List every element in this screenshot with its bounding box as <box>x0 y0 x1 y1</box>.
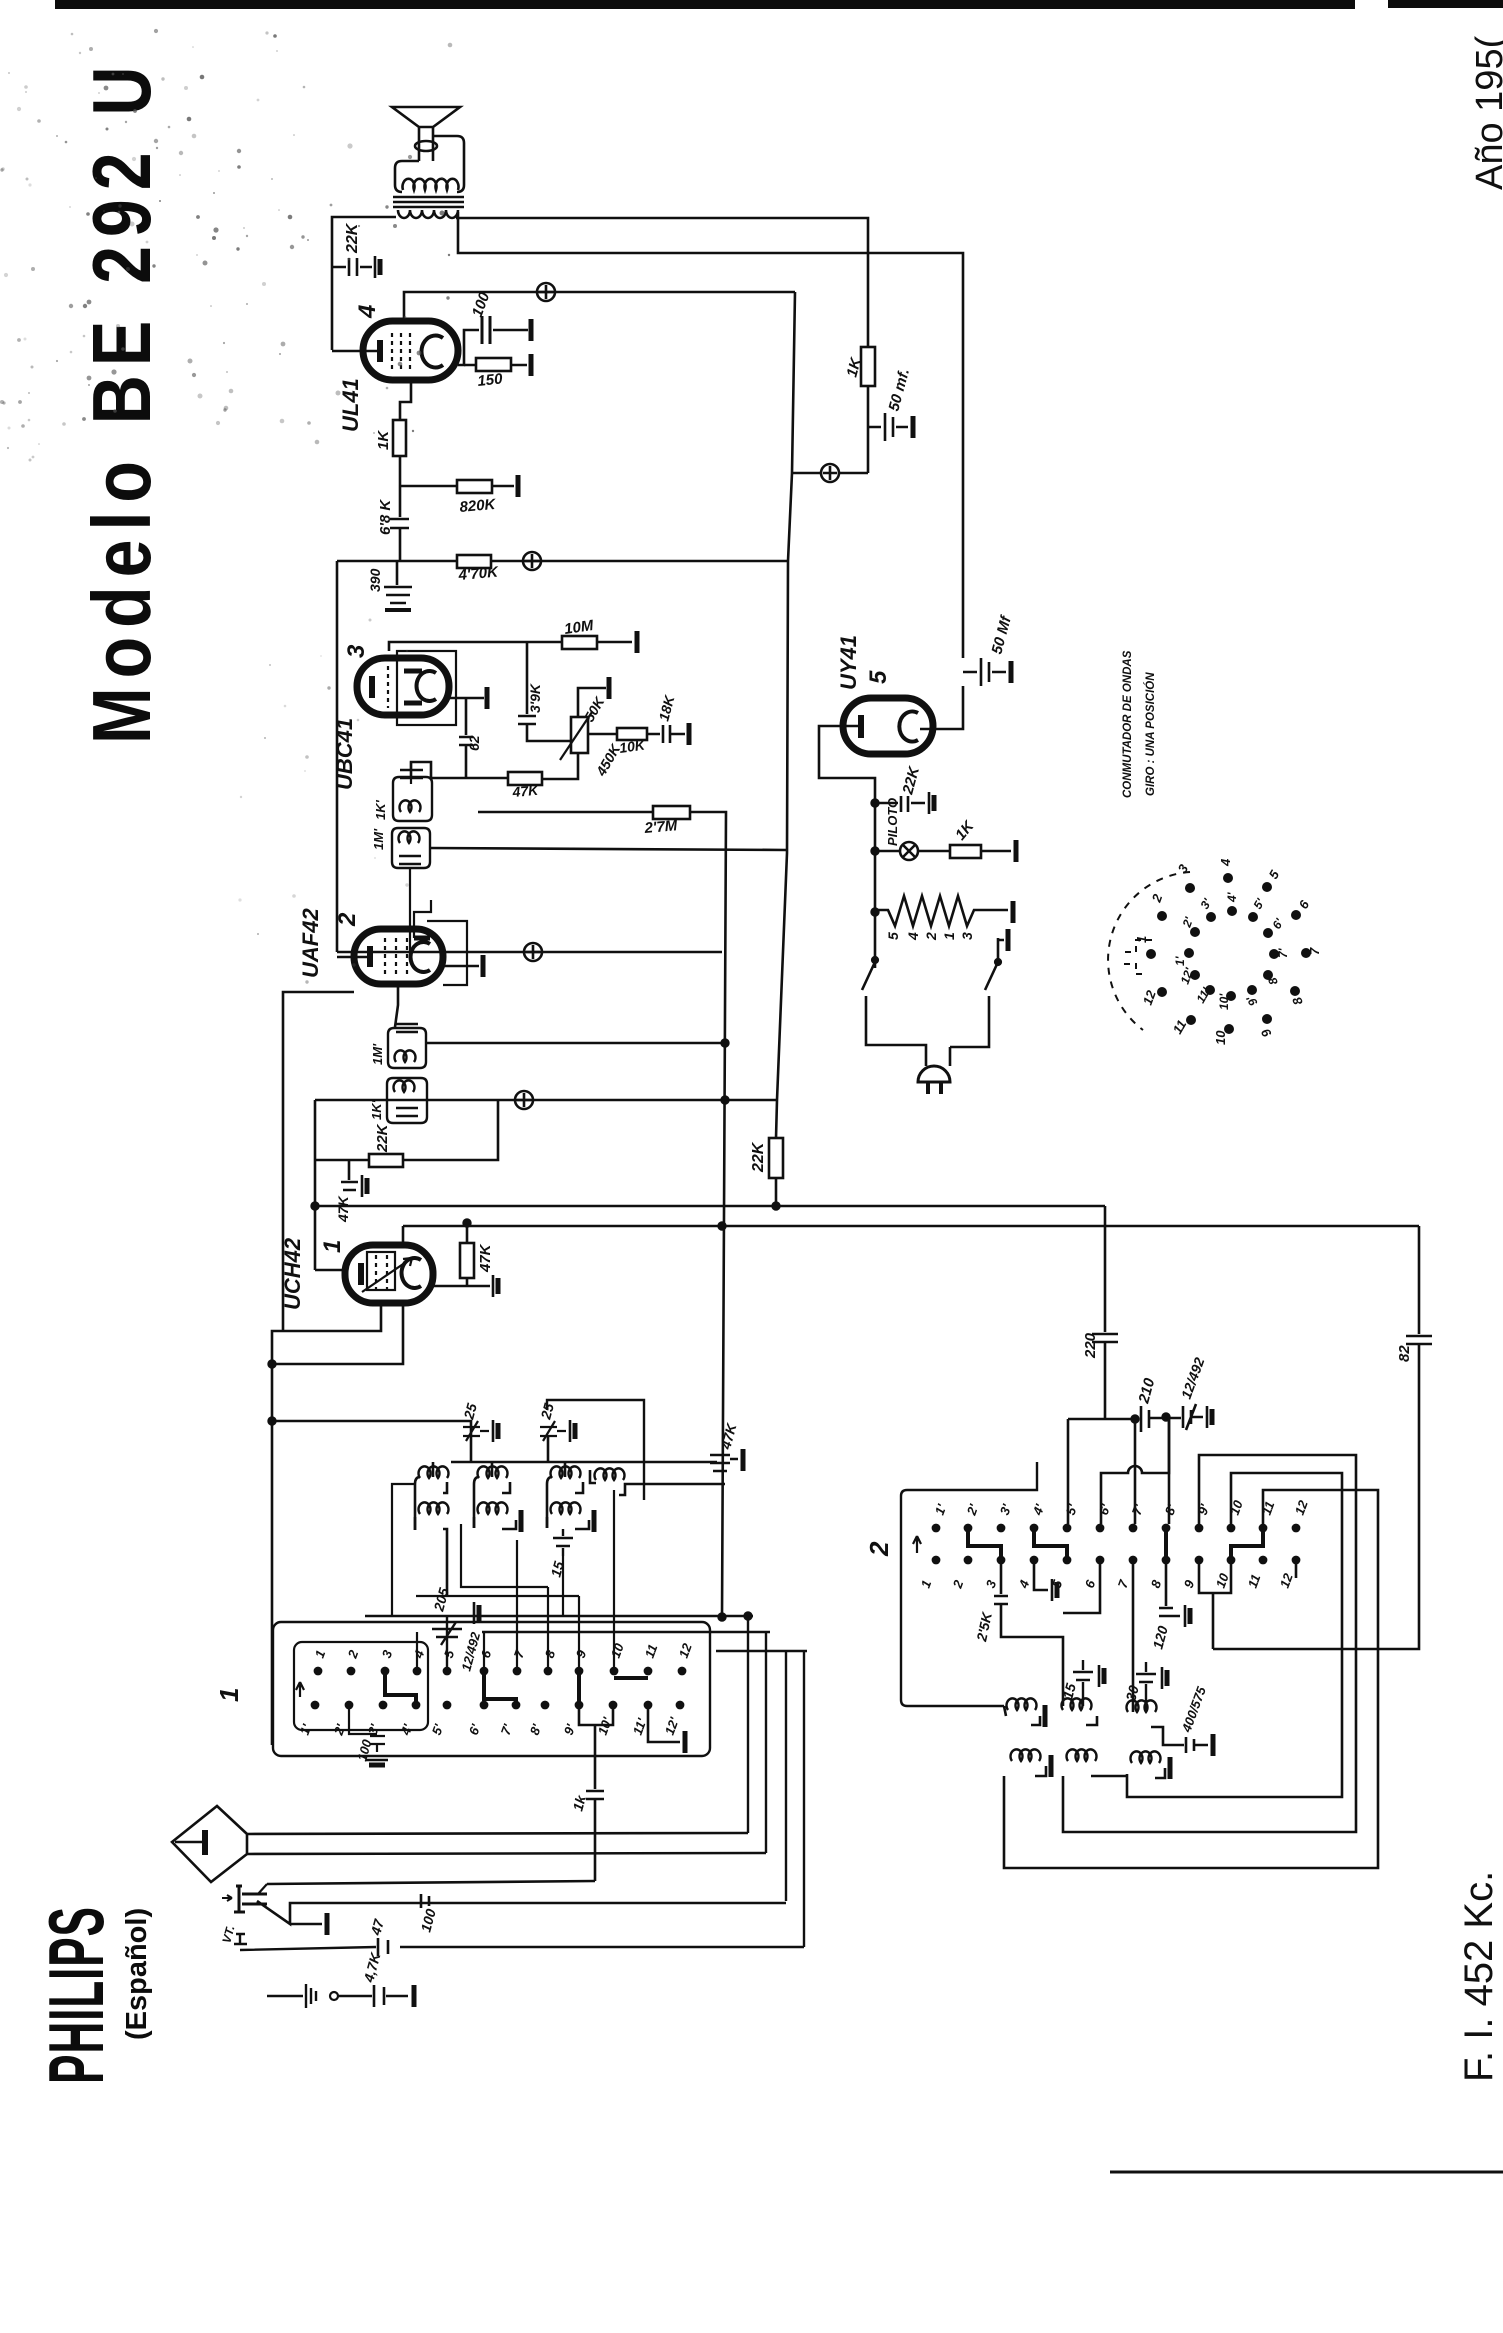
svg-text:UBC41: UBC41 <box>332 718 357 790</box>
capacitor 15 (osc) <box>1073 1660 1093 1706</box>
UCH42 cathode bar <box>358 1263 364 1285</box>
ground <box>530 354 533 376</box>
svg-text:8: 8 <box>1148 1577 1165 1590</box>
scan noise top bar <box>55 0 1355 9</box>
svg-text:Modelo BE 292 U: Modelo BE 292 U <box>76 57 169 744</box>
svg-text:8': 8' <box>527 1721 545 1737</box>
contact 8 to capacitor 120 <box>1159 1560 1180 1616</box>
svg-text:390: 390 <box>367 568 383 592</box>
capacitor 30 (osc) <box>1136 1662 1156 1710</box>
svg-text:UAF42: UAF42 <box>298 908 323 978</box>
svg-text:11: 11 <box>1245 1572 1264 1590</box>
link 6-7' <box>484 1673 516 1703</box>
IFT2 coupling top box <box>393 777 432 821</box>
switch bank 1 box <box>273 1622 710 1756</box>
svg-text:8: 8 <box>1289 994 1306 1007</box>
nested loop 11 <box>1004 1490 1378 1868</box>
switch 2 contact labels primed <box>932 1498 1311 1518</box>
UAF42 grid bus <box>337 951 722 954</box>
ground <box>375 256 380 278</box>
switch 1 contact labels top <box>312 1641 695 1661</box>
mains aerial ground chain <box>267 1995 303 1998</box>
UAF42 anode to IFT3 <box>395 984 398 1027</box>
svg-text:10: 10 <box>1213 1571 1232 1590</box>
IFT3 wire right to B rail <box>426 1042 725 1045</box>
UL41 grid wire left <box>332 350 377 353</box>
svg-text:9': 9' <box>1195 1501 1213 1517</box>
voice coil winding <box>403 179 459 190</box>
resistor 47K (AF) <box>508 772 542 785</box>
capacitor 82 (right edge) <box>1213 1226 1432 1649</box>
tube UBC41 <box>357 658 449 715</box>
svg-text:47K: 47K <box>335 1195 351 1223</box>
svg-text:6: 6 <box>1296 897 1313 911</box>
UBC41 cathode bar <box>369 676 375 698</box>
switch1 bus b <box>482 1631 770 1634</box>
UCH42 grid dashes <box>376 1255 387 1293</box>
svg-text:5: 5 <box>1266 867 1283 881</box>
svg-text:6': 6' <box>1269 915 1286 931</box>
UBC41 grid dash <box>387 666 389 708</box>
osc coil row 1 <box>1004 1706 1006 1716</box>
svg-text:22K: 22K <box>344 222 361 254</box>
bottom right rule line <box>1110 2171 1503 2174</box>
svg-text:4: 4 <box>1218 858 1233 867</box>
svg-text:22K: 22K <box>899 764 923 797</box>
resistor 1K (pilot shunt) <box>950 845 981 858</box>
heater dropper zigzag <box>875 896 1008 926</box>
svg-text:4: 4 <box>410 1647 427 1661</box>
wafer outer contacts <box>1146 949 1156 959</box>
svg-text:7: 7 <box>511 1647 528 1660</box>
svg-text:1: 1 <box>918 1578 935 1590</box>
nested line b (to antenna bottom) <box>247 1853 766 1854</box>
UL41 screen tap wires right <box>458 330 528 365</box>
9'-10' join and AVC feed <box>579 1707 613 1789</box>
trimmer 25 (a) <box>463 1421 489 1441</box>
capacitor 50Mf (UL41 cathode bypass) <box>868 413 908 441</box>
padder line <box>1068 1418 1139 1421</box>
svg-text:10: 10 <box>1213 1030 1228 1045</box>
switch bank 1 contacts <box>311 1667 687 1710</box>
svg-text:3'9K: 3'9K <box>527 683 543 713</box>
resistor 820K <box>400 485 514 488</box>
UBC41 anode arc <box>417 671 436 701</box>
svg-text:UCH42: UCH42 <box>280 1237 305 1310</box>
UAF42 anode arc <box>411 942 430 972</box>
loudspeaker <box>392 107 460 161</box>
svg-text:18K: 18K <box>655 693 677 723</box>
UL41 cathode wire down <box>400 380 411 420</box>
capacitor 15 (aerial) <box>553 1529 573 1556</box>
link 11-10 <box>1231 1530 1263 1558</box>
wire primary right to HT rail <box>456 218 868 347</box>
coil block row 2 <box>419 1502 449 1514</box>
UL41 anode arc <box>421 336 443 368</box>
coil block row 1 <box>415 1462 433 1530</box>
node (plus junction) <box>515 1091 533 1109</box>
UCH42 inner box <box>367 1252 395 1290</box>
capacitor 50Mf (reservoir) <box>963 658 1006 686</box>
resistor 2'7M <box>653 806 690 819</box>
svg-text:820K: 820K <box>459 496 497 516</box>
svg-text:2': 2' <box>963 1501 981 1518</box>
svg-text:1': 1' <box>932 1501 950 1517</box>
svg-text:12: 12 <box>676 1641 695 1660</box>
UAF42 diode plate <box>414 936 430 941</box>
svg-text:8': 8' <box>1162 1501 1180 1517</box>
contact 7 wire down <box>1132 1560 1135 1712</box>
svg-text:1': 1' <box>1173 955 1187 966</box>
svg-text:12': 12' <box>1178 965 1197 986</box>
svg-text:6: 6 <box>1082 1577 1099 1590</box>
UAF42 left pin wire to lower rail <box>283 992 354 1331</box>
resistor 10M <box>562 636 597 649</box>
svg-text:25: 25 <box>460 1401 480 1421</box>
wire IFT2 down to UAF42 grid bus <box>409 868 411 952</box>
capacitor 47K (coil bus) <box>710 1455 738 1471</box>
svg-text:6: 6 <box>478 1647 495 1660</box>
svg-text:5: 5 <box>441 1647 458 1660</box>
oscillator shield box <box>547 1400 644 1500</box>
svg-text:50 mf.: 50 mf. <box>885 367 913 413</box>
scan speckle noise <box>0 29 452 984</box>
capacitor 220 <box>1092 1334 1118 1419</box>
IFT2 bottom box <box>392 828 430 868</box>
bus1 corner down to padder chain <box>1104 1206 1107 1332</box>
svg-text:9: 9 <box>1181 1577 1198 1590</box>
HT dropper rail: resistor 1K top right <box>861 347 875 386</box>
wire secondary lower tap down-right <box>458 212 963 658</box>
svg-text:9: 9 <box>573 1647 590 1660</box>
wave switch wafer diagram <box>1108 872 1190 1030</box>
svg-text:6'8 K: 6'8 K <box>377 499 394 535</box>
UY41 anode arc <box>899 712 918 742</box>
svg-text:3: 3 <box>379 1647 396 1660</box>
svg-text:1: 1 <box>312 1648 329 1660</box>
nested line a (to antenna top) <box>247 1833 748 1834</box>
node (plus junction) <box>523 552 541 570</box>
svg-text:5: 5 <box>885 932 901 940</box>
AF line to 47K <box>431 777 507 780</box>
svg-text:5': 5' <box>429 1721 447 1737</box>
wire 3'9K branch <box>526 642 529 714</box>
UY41 cathode bar <box>858 715 864 738</box>
svg-text:210: 210 <box>1135 1376 1158 1406</box>
capacitor 6'8K coupling <box>390 485 409 561</box>
capacitor 100 <box>482 316 490 344</box>
svg-text:10K: 10K <box>618 736 647 756</box>
oscillator grid bus 1 <box>315 1205 1105 1208</box>
svg-text:100: 100 <box>469 289 494 319</box>
anode supply vertical rail <box>776 292 795 1138</box>
aerial coil feed from left rail <box>272 1421 471 1462</box>
UBC41 diode box shield <box>397 651 456 725</box>
UCH42 grid wire <box>315 1269 345 1272</box>
svg-text:47K: 47K <box>477 1243 494 1273</box>
svg-text:10: 10 <box>608 1641 627 1660</box>
switch bank 2 box <box>901 1462 1037 1706</box>
svg-text:7': 7' <box>498 1721 516 1737</box>
svg-text:1M': 1M' <box>370 1043 385 1065</box>
svg-text:10: 10 <box>1227 1498 1246 1517</box>
svg-text:4: 4 <box>354 305 381 319</box>
svg-text:4: 4 <box>905 932 921 941</box>
wafer dashed arc <box>1108 872 1190 1030</box>
ground <box>517 475 520 497</box>
svg-text:2: 2 <box>344 1647 361 1661</box>
svg-text:12': 12' <box>662 1715 682 1737</box>
capacitor 47 <box>378 1938 388 1956</box>
svg-text:1K': 1K' <box>373 799 388 820</box>
svg-text:25: 25 <box>537 1401 557 1421</box>
coil D (feedback) <box>595 1468 625 1480</box>
wire to 5' <box>1067 1419 1070 1524</box>
UCH42 mixer arrow <box>362 1258 412 1292</box>
IFT2 top coils <box>399 800 420 812</box>
AVC left rail <box>314 1100 317 1270</box>
svg-text:100: 100 <box>417 1907 439 1934</box>
capacitor 62 <box>459 698 473 778</box>
link 3-4' <box>385 1673 416 1703</box>
wire 6' riser <box>1101 1419 1169 1524</box>
switch 1 contact labels bottom <box>297 1715 682 1738</box>
svg-text:2: 2 <box>864 1541 894 1557</box>
contacts 9,10 join <box>1199 1560 1231 1649</box>
svg-text:7: 7 <box>1115 1577 1132 1590</box>
potentiometer 50K/450K <box>571 717 588 753</box>
contact 4 ground <box>1034 1560 1048 1590</box>
svg-text:50 Mf: 50 Mf <box>988 613 1015 656</box>
link 2'-3 <box>968 1530 1001 1558</box>
svg-text:1K: 1K <box>952 817 978 844</box>
svg-text:12: 12 <box>1292 1498 1311 1517</box>
svg-text:Año 195(: Año 195( <box>1469 35 1503 190</box>
svg-text:205: 205 <box>430 1586 452 1614</box>
tube UL41 <box>363 321 458 380</box>
pickup jack <box>234 1886 267 1912</box>
contact 12 stub <box>1295 1560 1298 1578</box>
UAF42 cathode bar <box>367 946 373 967</box>
svg-text:1M': 1M' <box>371 828 386 850</box>
tube UY41 <box>843 698 933 754</box>
svg-text:2'7M: 2'7M <box>643 817 679 837</box>
switch 2 rotor arrow <box>913 1536 921 1553</box>
capacitor 400/575 <box>1186 1737 1208 1753</box>
svg-text:8: 8 <box>542 1647 559 1660</box>
svg-text:6': 6' <box>1096 1501 1114 1517</box>
node (plus junction) <box>821 464 839 482</box>
mains switch pole A <box>862 962 926 1062</box>
UL41 cathode bar <box>377 340 383 362</box>
speaker magnet housing <box>395 136 464 192</box>
svg-text:3: 3 <box>343 644 370 658</box>
link 8'-8 <box>1164 1530 1168 1558</box>
IFT4 coils <box>393 1080 414 1092</box>
switch 2 contact labels unprimed <box>918 1571 1296 1591</box>
UBC41 top wire to 10M line <box>389 642 561 651</box>
junction dot <box>773 1203 780 1210</box>
UY41 left wire down <box>819 726 875 968</box>
capacitor 47K (AVC) to ground <box>341 1160 358 1190</box>
UAF42 grid left wire <box>337 956 367 959</box>
pickup line to 1K cap <box>267 1881 595 1884</box>
aerial coil bus <box>451 1461 717 1464</box>
resistor 22K (AVC) <box>369 1154 403 1167</box>
mains switch pole B <box>950 938 1004 1047</box>
svg-text:220: 220 <box>1082 1332 1099 1359</box>
wafer labels outer <box>1134 858 1322 1045</box>
resistor 47K (UCH42 cathode) <box>460 1243 474 1278</box>
switch bank 2 contacts <box>932 1524 1301 1565</box>
resistor 150 <box>464 364 527 367</box>
riser 9 <box>578 1596 580 1671</box>
svg-text:VT.: VT. <box>219 1924 237 1945</box>
svg-text:F. I. 452 Kc.: F. I. 452 Kc. <box>1457 1871 1501 2082</box>
ground <box>530 319 533 341</box>
svg-text:150: 150 <box>477 370 504 390</box>
svg-text:47K: 47K <box>511 782 540 800</box>
svg-text:3: 3 <box>1175 861 1192 875</box>
UAF42 shield box <box>427 921 467 985</box>
IFT4 bottom box <box>387 1078 427 1123</box>
ground <box>636 631 639 653</box>
svg-text:1: 1 <box>1134 936 1149 943</box>
svg-text:5': 5' <box>1063 1501 1081 1517</box>
svg-text:11: 11 <box>1259 1499 1278 1517</box>
UBC41 diode plates <box>404 669 422 674</box>
UBC41 cathode ground wire <box>449 697 484 700</box>
output transformer primary winding <box>398 210 458 218</box>
wire IFT2 secondary right to AVC rail <box>430 848 787 850</box>
nested loop 9' <box>1063 1455 1356 1832</box>
capacitor 100 (aerial series) <box>421 1894 429 1908</box>
svg-text:2: 2 <box>1148 891 1165 905</box>
11'-ground <box>648 1707 680 1742</box>
UL41 grid dashes <box>392 333 410 370</box>
svg-text:22K: 22K <box>374 1123 391 1153</box>
osc coil row 2 <box>1011 1749 1041 1761</box>
capacitor 390 to ground <box>384 561 412 603</box>
svg-text:2: 2 <box>949 1577 966 1591</box>
svg-text:5: 5 <box>865 670 892 684</box>
capacitor 3'9K <box>518 716 571 741</box>
wafer inner contacts <box>1184 948 1194 958</box>
svg-text:9: 9 <box>1258 1026 1275 1040</box>
riser 6 <box>483 1632 485 1671</box>
svg-text:12: 12 <box>1277 1571 1296 1590</box>
svg-text:47: 47 <box>367 1916 387 1937</box>
grid stopper line 2'7M <box>478 811 652 814</box>
wire primary left to 22K grid cap rail <box>332 217 396 350</box>
IFT3 top box <box>388 1028 426 1068</box>
svg-text:1: 1 <box>319 1240 346 1253</box>
output transformer core <box>393 196 464 199</box>
capacitor 1K (AVC feed) <box>586 1791 604 1881</box>
mains plug <box>918 1066 950 1082</box>
capacitor 210 <box>1141 1406 1181 1432</box>
pickup switch arm to ground <box>257 1901 786 1924</box>
svg-text:3': 3' <box>1197 895 1214 911</box>
resistor 1K (UL41 cathode) <box>393 420 406 456</box>
svg-text:7: 7 <box>1307 947 1322 955</box>
svg-text:2: 2 <box>923 932 939 941</box>
speaker voice coil cylinder <box>415 141 437 151</box>
junction dot <box>722 1040 729 1047</box>
svg-text:120: 120 <box>1149 1624 1171 1651</box>
IFT3 top coils <box>395 1050 416 1062</box>
UAF42 grid dashes <box>385 938 407 975</box>
svg-text:UL41: UL41 <box>338 378 363 432</box>
capacitor 22K (pilot bypass) <box>875 796 925 812</box>
UAF42 top wire <box>414 900 431 938</box>
wafer labels inner <box>1173 891 1290 1010</box>
svg-text:9': 9' <box>561 1721 579 1737</box>
wire 7' riser <box>1134 1419 1137 1524</box>
switch1 bus a <box>365 1615 753 1618</box>
aerial coil connections down <box>392 1484 415 1616</box>
svg-text:12/492: 12/492 <box>1178 1355 1208 1401</box>
capacitor 4,7K <box>374 1985 384 2007</box>
svg-text:7': 7' <box>1276 947 1290 958</box>
link 10-11 <box>614 1676 648 1680</box>
IFT3 top cap <box>396 1024 418 1032</box>
svg-text:1: 1 <box>941 932 957 940</box>
vertical return wires <box>748 1616 804 1947</box>
svg-text:3': 3' <box>997 1501 1015 1517</box>
svg-text:3: 3 <box>983 1577 1000 1590</box>
AVC resistor 22K line <box>315 1100 498 1160</box>
resistor 4'70K on anode bus <box>457 555 491 568</box>
nested loop 10 <box>1127 1473 1342 1797</box>
IFT2 bottom cap <box>399 856 421 864</box>
riser 8 <box>547 1587 549 1671</box>
wire UL41 anode to screen rail <box>404 292 795 321</box>
UY41 right wire to HT <box>920 686 963 729</box>
switch 1 rotor arrow <box>296 1682 304 1697</box>
svg-text:UY41: UY41 <box>836 635 861 690</box>
svg-text:1': 1' <box>297 1721 315 1737</box>
antenna <box>172 1806 247 1882</box>
left rail down to UAF42 grid bus <box>336 561 339 952</box>
svg-text:1: 1 <box>214 1688 244 1702</box>
svg-text:PHILIPS: PHILIPS <box>34 1906 120 2084</box>
trimmer 205 on bus <box>432 1616 462 1671</box>
UCH42 top pin wire <box>402 1226 405 1245</box>
svg-text:1k: 1k <box>569 1792 589 1812</box>
oscillator bus 2 <box>403 1225 1419 1228</box>
wire IFT2 top to UBC41 grid path <box>411 762 431 778</box>
svg-text:47K: 47K <box>717 1421 740 1452</box>
trimmer 25 (b) <box>540 1421 566 1441</box>
IFT4 bottom cap <box>396 1108 418 1116</box>
resistor 10K <box>617 728 647 740</box>
capacitor 18K <box>647 725 685 743</box>
pot wiper to 10K <box>588 733 616 736</box>
svg-text:2': 2' <box>330 1721 348 1738</box>
svg-text:5': 5' <box>1250 895 1267 911</box>
svg-text:62: 62 <box>466 735 482 751</box>
svg-text:GIRO : UNA POSICIÓN: GIRO : UNA POSICIÓN <box>1144 672 1157 796</box>
IFT2 top cap <box>400 770 423 778</box>
svg-text:50K: 50K <box>581 693 608 724</box>
node (plus junction) <box>524 943 542 961</box>
switch1 bus c <box>716 1650 807 1653</box>
capacitor 22K (grid) <box>332 258 372 276</box>
aerial terminal VT <box>234 1934 376 1950</box>
tube UAF42 <box>354 929 443 984</box>
resistor 22K (HT dropper) <box>769 1138 783 1178</box>
